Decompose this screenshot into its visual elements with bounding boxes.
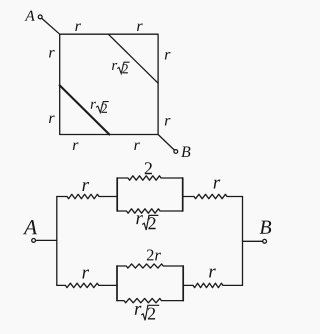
right bus wire [242, 197, 244, 286]
value label r√2 (bottom branch box) [135, 305, 159, 320]
wire left bus to resistor r (bottom branch) [57, 284, 66, 286]
wire parallel box to resistor r (top branch right) [183, 196, 194, 198]
left bus wire [56, 197, 58, 286]
value label r√2 (top branch box) [136, 215, 158, 230]
wire right bus to terminal B [243, 240, 263, 242]
value label 2r (bottom branch box) [147, 250, 161, 261]
terminal A (equivalent circuit) [32, 239, 36, 243]
wire resistor r to parallel box (top branch) [99, 196, 117, 198]
resistor 2 (top branch box, upper) [117, 176, 183, 180]
label B [181, 147, 190, 158]
value label r (top branch right) [214, 180, 221, 189]
terminal A (square network) [38, 15, 42, 19]
value label r√2 (upper diagonal) [112, 62, 130, 73]
resistor r (bottom branch left) [65, 283, 98, 287]
value label r (left-bottom side) [49, 116, 55, 124]
resistor r√2 (lower diagonal, left mid to bottom mid, bold) [60, 85, 110, 134]
wire square corner to terminal B [158, 135, 174, 151]
value label r (left-top side) [49, 50, 55, 58]
parallel box right bar (top branch) [182, 178, 184, 211]
label A [25, 11, 35, 21]
parallel box left bar (top branch) [116, 178, 118, 211]
parallel box right bar (bottom branch) [182, 266, 184, 301]
terminal B (square network) [174, 150, 178, 154]
wire left bus to resistor r (top branch) [57, 196, 67, 198]
value label r (top-right side) [137, 24, 143, 32]
value label r (bottom-right side) [134, 143, 140, 151]
terminal B (equivalent circuit) [263, 239, 267, 243]
wire resistor r to right bus (bottom branch) [223, 284, 243, 286]
wire terminal A to square corner [42, 18, 60, 34]
resistor r√2 (top branch box, lower) [117, 209, 183, 213]
wire resistor r to right bus (top branch) [227, 196, 243, 198]
value label r (top-left side) [75, 24, 81, 32]
resistor r (top branch right) [194, 194, 227, 198]
resistor r√2 (bottom branch box, lower) [117, 298, 183, 302]
resistor r (bottom branch right) [193, 283, 223, 287]
value label r (right-top side) [165, 52, 171, 60]
label A (equivalent circuit) [23, 220, 37, 234]
wire resistor r to parallel box (bottom branch) [99, 284, 117, 286]
value label r√2 (lower diagonal) [91, 102, 109, 113]
label B (equivalent circuit) [260, 221, 272, 234]
resistor r (top branch left) [67, 194, 99, 198]
resistor 2r (bottom branch box, upper) [117, 264, 183, 268]
value label r (bottom-left side) [73, 143, 79, 151]
value label r (bottom branch left) [82, 270, 89, 279]
wire parallel box to resistor r (bottom branch right) [183, 284, 193, 286]
value label r (top branch left) [82, 182, 89, 191]
wire terminal A to left node [36, 239, 57, 241]
value label r (right-bottom side) [165, 118, 171, 126]
parallel box left bar (bottom branch) [116, 266, 118, 301]
value label r (bottom branch right) [209, 269, 216, 278]
resistor r√2 (upper diagonal, top mid to right mid) [108, 34, 158, 83]
square loop of eight resistors r [60, 34, 158, 134]
value label 2 (top branch box) [145, 162, 152, 174]
